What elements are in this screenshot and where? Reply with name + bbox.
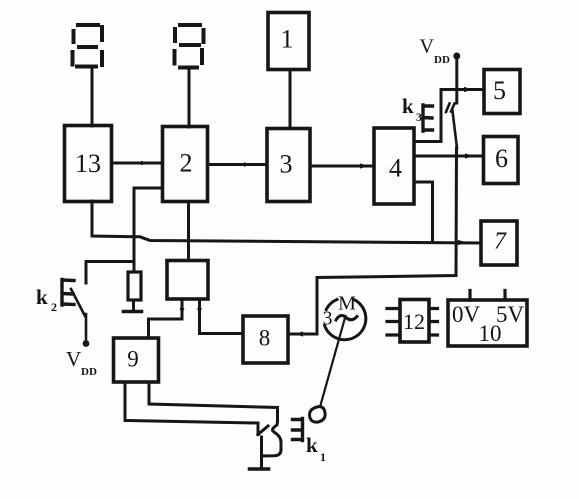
svg-text:13: 13 — [75, 149, 101, 178]
wire k3 line down to motor branch and box 8 (arrow left) — [288, 148, 457, 334]
wire control box to box 8 — [200, 299, 244, 334]
relay contact k1 bracket — [293, 419, 303, 441]
svg-text:M: M — [338, 293, 356, 315]
switch k2 blade — [71, 289, 86, 340]
k1 moving contact blob — [310, 407, 326, 423]
svg-text:6: 6 — [495, 144, 508, 173]
wire box 1 to box 3 — [289, 70, 292, 128]
wire control box to box 9 (arrow down) — [149, 299, 183, 338]
box 10 — [448, 300, 527, 346]
svg-text:3: 3 — [416, 110, 422, 124]
wire box 2 to box 3 — [208, 163, 267, 166]
svg-text:DD: DD — [434, 54, 450, 66]
box 3 — [267, 129, 310, 202]
box 2 — [163, 127, 208, 202]
box 12 — [400, 300, 429, 343]
box 9 — [114, 338, 159, 382]
wire box 9 right output to transistor collector — [149, 382, 278, 421]
ground under resistor — [124, 310, 142, 314]
long bus wire box 13 bottom to box 7 — [92, 201, 480, 243]
wire box 4 lower output down to long bus — [414, 182, 433, 241]
wire box 9 left output to transistor base — [125, 382, 258, 435]
switch k3 blade and break ticks — [446, 104, 457, 149]
svg-text:k: k — [402, 94, 414, 118]
transistor Q1 — [258, 426, 268, 435]
svg-text:12: 12 — [403, 309, 425, 334]
svg-text:2: 2 — [51, 300, 57, 314]
VDD node (left) — [83, 340, 90, 347]
linkage from motor to k1 — [320, 316, 346, 407]
box 10 terminal ticks — [470, 291, 505, 301]
wire box 3 to box 4 (arrow) — [310, 165, 374, 168]
wire VDD down to switch k3 — [455, 59, 458, 103]
box 8 — [243, 316, 288, 363]
svg-text:DD: DD — [81, 366, 97, 378]
svg-text:V: V — [66, 347, 81, 371]
svg-text:3: 3 — [280, 150, 293, 179]
wire box 4 mid output to box 6 — [414, 155, 483, 158]
control box (unnumbered) — [167, 261, 208, 300]
wire box 4 upper output to box 5 — [414, 90, 484, 142]
wire box 13 to box 2 — [112, 162, 162, 165]
resistor R1 — [133, 238, 135, 272]
svg-text:1: 1 — [320, 450, 326, 464]
svg-text:k: k — [36, 285, 48, 309]
VDD node (top) — [453, 53, 460, 60]
switch k3 fixed bracket — [423, 105, 433, 131]
box 6 — [484, 137, 519, 184]
svg-text:5: 5 — [493, 76, 506, 105]
seven-segment display DS2 (dashed digit) — [175, 25, 204, 68]
svg-text:9: 9 — [127, 347, 139, 372]
motor M (3-phase) — [326, 300, 337, 310]
box 12 right pins — [429, 309, 438, 336]
svg-text:8: 8 — [259, 326, 271, 351]
wire box 2 bottom to control box — [187, 202, 190, 261]
box 1 — [268, 13, 309, 70]
box 7 — [481, 221, 517, 265]
box 12 left pins — [387, 309, 400, 336]
box 5 — [484, 70, 520, 114]
box 4 — [374, 128, 414, 204]
svg-text:0V: 0V — [452, 302, 481, 327]
svg-text:4: 4 — [389, 154, 402, 183]
svg-text:1: 1 — [281, 25, 294, 54]
wire DS2 to box 2 — [188, 69, 191, 127]
svg-text:10: 10 — [479, 321, 502, 346]
svg-text:3: 3 — [323, 308, 333, 330]
svg-text:7: 7 — [494, 229, 507, 255]
seven-segment display DS1 (dashed digit) — [73, 25, 103, 67]
svg-text:2: 2 — [180, 149, 193, 178]
wire box 2 left input from resistor node — [134, 188, 162, 272]
svg-text:V: V — [420, 36, 435, 58]
ground under transistor — [250, 467, 269, 471]
wire DS1 to box 13 — [91, 67, 94, 126]
switch k2 fixed bracket — [62, 280, 74, 306]
wire k2 branch — [86, 262, 134, 284]
svg-text:k: k — [306, 433, 318, 457]
box 13 — [65, 126, 112, 202]
